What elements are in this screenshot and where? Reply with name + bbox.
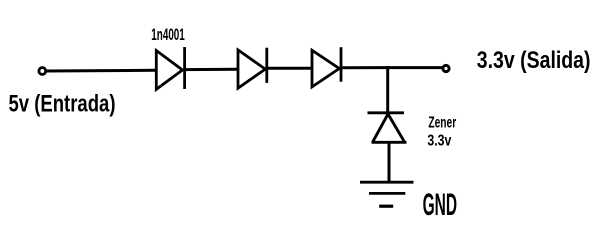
terminal output	[443, 65, 449, 71]
diode D1	[156, 47, 184, 89]
svg-text:5v (Entrada): 5v (Entrada)	[9, 90, 116, 117]
wire D1 to D2	[185, 68, 238, 71]
ground bar 2	[369, 192, 405, 195]
svg-text:3.3v: 3.3v	[427, 133, 451, 150]
svg-text:Zener: Zener	[428, 114, 456, 131]
diode D3	[312, 47, 341, 87]
terminal input	[39, 68, 46, 75]
diode D2	[238, 48, 267, 88]
svg-text:GND: GND	[423, 186, 458, 222]
ground bar 3	[379, 205, 393, 208]
zener diode D4 triangle	[372, 114, 407, 142]
wire input to D1	[47, 69, 157, 73]
zener diode D4 cathode bar	[368, 111, 405, 114]
svg-text:3.3v (Salida): 3.3v (Salida)	[477, 47, 591, 74]
wire D2 to D3	[267, 67, 312, 70]
svg-text:1n4001: 1n4001	[151, 25, 185, 44]
wire junction down to zener	[386, 66, 389, 113]
ground bar 1	[360, 181, 414, 184]
wire zener to ground	[388, 142, 391, 182]
wire D3 to output terminal	[341, 66, 443, 69]
